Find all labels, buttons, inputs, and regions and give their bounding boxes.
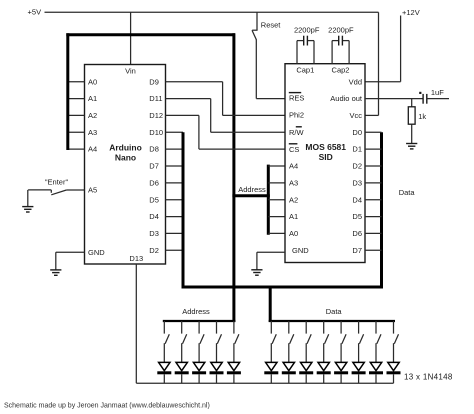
svg-text:+5V: +5V <box>28 8 42 17</box>
wire SID D6 stub to data bus <box>365 232 382 234</box>
svg-text:D3: D3 <box>149 229 159 238</box>
svg-text:D6: D6 <box>352 229 362 238</box>
svg-text:CS: CS <box>289 145 299 154</box>
ground (Arduino GND) <box>50 270 61 275</box>
svg-text:Arduino: Arduino <box>109 143 142 153</box>
diode D7 1N4148 <box>282 343 296 383</box>
bus data: Arduino side vertical (D10,D8-D2) <box>182 132 185 288</box>
diode D11 1N4148 <box>352 343 366 383</box>
switch S5 (address bit) <box>234 321 239 344</box>
pin D3 (Arduino) <box>149 229 159 238</box>
wire SID D3 stub to data bus <box>365 182 382 184</box>
node Address (switch group label) <box>182 307 210 316</box>
diode D2 1N4148 <box>175 343 189 383</box>
pin Vcc (SID) <box>349 111 362 120</box>
switch S11 (data bit) <box>359 321 364 344</box>
pin CS (SID, active low) <box>289 144 300 154</box>
bus address switch group top rail <box>163 320 236 322</box>
pin D1 (SID) <box>352 145 362 154</box>
bus data: SID side vertical (D0-D7) <box>380 132 383 288</box>
diode D12 1N4148 <box>369 343 383 383</box>
svg-text:D4: D4 <box>149 212 159 221</box>
wire D5 stub to data bus <box>166 199 184 201</box>
pin D6 (Arduino) <box>149 179 159 188</box>
svg-text:Vcc: Vcc <box>349 111 362 120</box>
pin D2 (Arduino) <box>149 246 159 255</box>
pin A1 (SID) <box>289 212 298 221</box>
pin D8 (Arduino) <box>149 145 159 154</box>
pin A3 (SID) <box>289 179 298 188</box>
pin D4 (Arduino) <box>149 212 159 221</box>
pin RES (SID, active low) <box>289 93 305 103</box>
svg-text:Cap1: Cap1 <box>296 66 314 75</box>
wire D6 stub to data bus <box>166 182 184 184</box>
pin R/W (SID, W active low) <box>289 127 305 137</box>
diode D6 1N4148 <box>264 343 278 383</box>
wire Audio out <box>365 98 423 100</box>
svg-text:GND: GND <box>292 246 309 255</box>
svg-text:A5: A5 <box>88 186 97 195</box>
svg-text:D10: D10 <box>149 128 163 137</box>
diode D9 1N4148 <box>317 343 331 383</box>
wire D11 to R/W <box>166 99 286 133</box>
switch "Enter" on A5 <box>28 177 84 195</box>
pin D9 (Arduino) <box>149 77 159 86</box>
svg-text:Data: Data <box>326 307 343 316</box>
pin D6 (SID) <box>352 229 362 238</box>
wire after C3 <box>427 98 449 100</box>
wire SID A3 stub <box>268 182 285 184</box>
svg-text:A1: A1 <box>88 94 97 103</box>
wire A5 switch to ground <box>27 190 29 207</box>
svg-text:D7: D7 <box>149 162 159 171</box>
svg-text:Reset: Reset <box>261 20 282 29</box>
pin A2 (Arduino) <box>68 111 97 120</box>
pin D5 (Arduino) <box>149 195 159 204</box>
diode D3 1N4148 <box>192 343 206 383</box>
svg-text:D12: D12 <box>149 111 163 120</box>
bus address: top horizontal <box>66 33 235 36</box>
pin Vdd (SID) <box>349 77 362 86</box>
capacitor C2 2200pF <box>328 25 354 63</box>
pin A3 (Arduino) <box>68 128 97 137</box>
svg-text:Phi2: Phi2 <box>289 111 304 120</box>
bus data switch group top rail <box>269 320 395 322</box>
svg-text:Address: Address <box>182 307 210 316</box>
svg-text:MOS 6581: MOS 6581 <box>305 142 346 152</box>
switch S12 (data bit) <box>376 321 381 344</box>
wire D2 stub to data bus <box>166 249 184 251</box>
svg-text:2200pF: 2200pF <box>328 25 354 34</box>
pin A1 (Arduino) <box>68 94 97 103</box>
pin GND (Arduino) <box>88 248 105 257</box>
svg-text:Vdd: Vdd <box>349 77 362 86</box>
wire D12 to CS <box>166 115 286 149</box>
diode D13 1N4148 <box>387 343 401 383</box>
svg-text:D0: D0 <box>352 128 362 137</box>
diode D5 1N4148 <box>227 343 241 383</box>
wire D7 stub to data bus <box>166 165 184 167</box>
pin A0 (SID) <box>289 229 298 238</box>
bus data: bottom horizontal <box>182 286 384 289</box>
wire SID D4 stub to data bus <box>365 199 382 201</box>
wire D4 stub to data bus <box>166 216 184 218</box>
pin D11 (Arduino) <box>149 94 162 103</box>
svg-text:A1: A1 <box>289 212 298 221</box>
wire +5V to Vcc <box>365 12 379 115</box>
wire Vin supply drop <box>130 12 132 64</box>
svg-text:A4: A4 <box>88 145 97 154</box>
IC U1 Arduino Nano <box>85 65 166 265</box>
svg-text:A3: A3 <box>88 128 97 137</box>
wire diode common bottom <box>136 382 393 384</box>
svg-text:D2: D2 <box>149 246 159 255</box>
pin D12 (Arduino) <box>149 111 163 120</box>
switch S4 (address bit) <box>217 321 222 344</box>
bus address: SID side vertical <box>267 165 270 235</box>
svg-text:A4: A4 <box>289 162 298 171</box>
switch S9 (data bit) <box>324 321 329 344</box>
svg-text:"Enter": "Enter" <box>45 177 69 186</box>
svg-text:Audio out: Audio out <box>330 94 363 103</box>
pin A4 (Arduino) <box>68 145 97 154</box>
pin A5 (Arduino) <box>88 186 97 195</box>
pin D3 (SID) <box>352 179 362 188</box>
wire SID D1 stub to data bus <box>365 148 382 150</box>
pin D5 (SID) <box>352 212 362 221</box>
diode D10 1N4148 <box>334 343 348 383</box>
wire Reset to RES pin <box>256 40 285 99</box>
svg-text:D3: D3 <box>352 179 362 188</box>
pin D0 (SID) <box>352 128 362 137</box>
svg-text:2200pF: 2200pF <box>294 25 320 34</box>
wire audio junction to R1 <box>411 99 413 107</box>
switch S13 (data bit) <box>394 321 399 344</box>
svg-text:Vin: Vin <box>125 66 136 75</box>
wire D9 to Phi2 <box>166 82 286 116</box>
svg-text:A2: A2 <box>289 195 298 204</box>
svg-text:SID: SID <box>319 152 333 162</box>
wire Arduino GND <box>56 252 85 270</box>
svg-text:RES: RES <box>289 93 304 102</box>
wire +5V rail <box>45 11 379 13</box>
svg-text:1k: 1k <box>418 112 426 121</box>
bus address: feed to SID <box>232 194 269 197</box>
pin D10 (Arduino) <box>149 128 163 137</box>
pin D7 (Arduino) <box>149 162 159 171</box>
pin D4 (SID) <box>352 195 362 204</box>
diode D4 1N4148 <box>210 343 224 383</box>
wire R1 to ground <box>411 124 413 143</box>
IC U2 MOS 6581 SID <box>285 64 365 263</box>
svg-text:A0: A0 <box>88 77 97 86</box>
bus data: feed drop to switches <box>269 286 272 323</box>
wire D3 stub to data bus <box>166 232 184 234</box>
svg-text:D8: D8 <box>149 145 159 154</box>
node Address (label near SID) <box>238 185 266 194</box>
switch S10 (data bit) <box>341 321 346 344</box>
svg-text:D13: D13 <box>129 254 143 263</box>
svg-text:D7: D7 <box>352 246 362 255</box>
switch S2 (address bit) <box>182 321 187 344</box>
wire +12V to Vdd <box>365 16 401 82</box>
resistor R1 1k <box>408 107 426 124</box>
wire D13 down <box>135 264 137 383</box>
capacitor C1 2200pF <box>294 25 320 63</box>
svg-text:D11: D11 <box>149 94 162 103</box>
svg-text:+12V: +12V <box>402 8 420 17</box>
wire SID D0 stub to data bus <box>365 131 382 133</box>
switch S1 (address bit) <box>164 321 169 344</box>
svg-text:D2: D2 <box>352 162 362 171</box>
node Data (switch group label) <box>326 307 343 316</box>
wire SID D5 stub to data bus <box>365 216 382 218</box>
ground (SID GND) <box>251 270 262 275</box>
switch S6 (data bit) <box>271 321 276 344</box>
svg-text:R/W: R/W <box>289 128 305 137</box>
wire SID GND <box>257 252 285 270</box>
pin A4 (SID) <box>289 162 298 171</box>
svg-text:A3: A3 <box>289 179 298 188</box>
credit text <box>4 402 210 409</box>
svg-text:Nano: Nano <box>115 153 136 163</box>
svg-text:A2: A2 <box>88 111 97 120</box>
capacitor C3 1uF <box>419 88 444 104</box>
node Data (label near SID) <box>399 188 416 197</box>
wire SID A4 stub <box>268 165 285 167</box>
svg-text:Address: Address <box>238 185 266 194</box>
svg-text:Cap2: Cap2 <box>332 66 350 75</box>
svg-text:D4: D4 <box>352 195 362 204</box>
label 13 x 1N4148 <box>404 373 453 382</box>
switch S7 (data bit) <box>289 321 294 344</box>
svg-text:A0: A0 <box>289 229 298 238</box>
svg-text:Schematic made up by Jeroen Ja: Schematic made up by Jeroen Janmaat (www… <box>4 402 210 409</box>
pin D2 (SID) <box>352 162 362 171</box>
node +12V <box>402 8 420 17</box>
diode D8 1N4148 <box>299 343 313 383</box>
svg-text:Data: Data <box>399 188 416 197</box>
svg-text:GND: GND <box>88 248 105 257</box>
svg-text:D5: D5 <box>149 195 159 204</box>
svg-text:D9: D9 <box>149 77 159 86</box>
diode D1 1N4148 <box>157 343 171 383</box>
node +5V <box>28 8 42 17</box>
switch Reset <box>252 12 281 40</box>
bus address: right vertical down to switches <box>232 33 235 322</box>
wire SID D2 stub to data bus <box>365 165 382 167</box>
pin D7 (SID) <box>352 246 362 255</box>
ground (audio RC) <box>406 144 417 149</box>
bus address: A0-A4 vertical collector <box>66 33 69 150</box>
pin A2 (SID) <box>289 195 298 204</box>
wire SID A2 stub <box>268 199 285 201</box>
wire D8 stub to data bus <box>166 148 184 150</box>
wire SID A0 stub <box>268 232 285 234</box>
pin A0 (Arduino) <box>68 77 97 86</box>
wire D10 stub to data bus <box>166 131 184 133</box>
wire SID D7 stub to data bus <box>365 249 382 251</box>
switch S3 (address bit) <box>199 321 204 344</box>
wire SID A1 stub <box>268 216 285 218</box>
svg-text:1uF: 1uF <box>431 88 444 97</box>
ground (Enter switch) <box>22 207 33 212</box>
switch S8 (data bit) <box>306 321 311 344</box>
pin Phi2 (SID) <box>289 111 304 120</box>
svg-text:D5: D5 <box>352 212 362 221</box>
svg-text:13 x 1N4148: 13 x 1N4148 <box>404 373 453 382</box>
svg-text:D6: D6 <box>149 179 159 188</box>
svg-text:D1: D1 <box>352 145 362 154</box>
pin Audio out (SID) <box>330 94 363 103</box>
